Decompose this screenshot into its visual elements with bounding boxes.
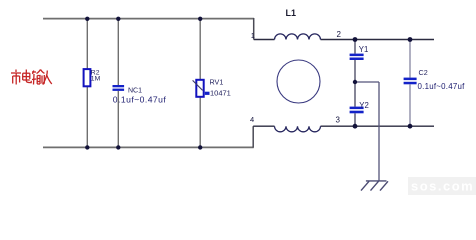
wire top-left horizontal <box>43 18 254 20</box>
svg-text:1M: 1M <box>91 76 101 83</box>
inductor L1 top winding <box>275 34 321 40</box>
wire jog top (x=254, down to choke level) <box>253 18 255 40</box>
capacitor Y1 plates <box>350 54 364 57</box>
capacitor C2 plates <box>404 78 417 81</box>
svg-text:Y1: Y1 <box>359 45 369 54</box>
入 <box>43 71 48 85</box>
junction dot C2 top <box>408 37 413 42</box>
wire R2 column <box>86 19 88 148</box>
svg-text:0.1uf~0.47uf: 0.1uf~0.47uf <box>113 94 167 104</box>
junction dot Y mid <box>353 80 357 84</box>
svg-text:4: 4 <box>250 115 254 124</box>
wire top-right horizontal (choke to end) <box>254 39 275 41</box>
capacitor Y2 lead bottom <box>354 113 356 126</box>
varistor RV1 diagonal <box>193 80 203 90</box>
输 <box>33 71 34 75</box>
wire bottom-left horizontal <box>43 146 254 148</box>
ground branch horizontal <box>355 81 379 83</box>
svg-text:0.1uf~0.47uf: 0.1uf~0.47uf <box>418 82 466 91</box>
svg-text:RV1: RV1 <box>210 78 224 87</box>
junction dot top R2 <box>85 17 89 21</box>
mains input label 市电输入 (drawn strokes, red) <box>11 70 52 85</box>
capacitor Y1 lead top <box>354 40 356 54</box>
varistor RV1 <box>196 80 203 97</box>
junction dot C2 bottom <box>408 124 413 129</box>
L1 core circle <box>277 60 320 103</box>
电 <box>25 70 27 82</box>
capacitor Y1 lead bottom <box>354 60 356 82</box>
capacitor C2 lead top <box>409 40 411 78</box>
watermark band <box>408 177 476 195</box>
inductor L1 bottom winding <box>275 126 321 132</box>
svg-text:10471: 10471 <box>210 89 231 98</box>
capacitor Y2 lead top <box>354 82 356 107</box>
junction dot node 3 / Y2 <box>353 124 358 129</box>
junction dot bottom R2 <box>85 145 89 149</box>
capacitor Y2 plates <box>350 107 364 110</box>
wire jog bottom <box>252 126 254 147</box>
svg-text:1: 1 <box>251 31 255 40</box>
svg-text:2: 2 <box>337 30 342 39</box>
junction dot node 2 / Y1 <box>353 37 358 42</box>
市 <box>15 70 17 73</box>
resistor R2 <box>84 69 91 86</box>
wire RV1 column <box>199 19 201 80</box>
ground branch vertical <box>378 82 380 181</box>
wire bottom-right horizontal <box>253 125 274 127</box>
junction dot bottom C1 <box>116 145 120 149</box>
svg-text:3: 3 <box>336 116 341 125</box>
capacitor C1 plates <box>113 85 125 87</box>
junction dot bottom RV1 <box>198 145 202 149</box>
svg-text:sos.com: sos.com <box>411 179 474 194</box>
svg-text:L1: L1 <box>286 8 297 18</box>
junction dot top C1 <box>116 17 120 21</box>
svg-text:C2: C2 <box>419 68 428 77</box>
capacitor C2 lead bottom <box>409 84 411 126</box>
ground symbol <box>361 181 388 191</box>
wire C1 column <box>117 19 119 85</box>
svg-text:Y2: Y2 <box>359 101 369 110</box>
bullet before 10471 <box>205 92 210 95</box>
junction dot top RV1 <box>198 17 202 21</box>
